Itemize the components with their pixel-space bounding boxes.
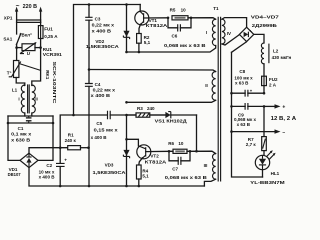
XP1 pin arrow left: [15, 7, 18, 22]
svg-text:430 мкГн: 430 мкГн: [272, 55, 292, 60]
svg-text:C4: C4: [95, 82, 101, 87]
fuse FU2: [262, 76, 267, 93]
svg-text:IV: IV: [227, 31, 231, 36]
wire feedback to winding II: [89, 70, 216, 72]
svg-text:"Вкл": "Вкл": [19, 33, 32, 38]
svg-text:T1: T1: [213, 6, 219, 11]
svg-text:0,068 мк х 63 В: 0,068 мк х 63 В: [164, 43, 206, 48]
label R6 10: [168, 141, 184, 146]
switch SA1: [16, 34, 20, 48]
label R2: [144, 35, 151, 45]
svg-text:КТ812А: КТ812А: [146, 23, 168, 28]
label VT1: [146, 18, 168, 28]
svg-text:х 400 В: х 400 В: [39, 175, 56, 180]
svg-text:R5: R5: [170, 7, 176, 12]
svg-text:1,5КЕ350СА: 1,5КЕ350СА: [93, 170, 127, 175]
capacitor C5: [108, 111, 166, 120]
bridge VD1: [20, 153, 38, 167]
svg-text:–: –: [282, 130, 285, 136]
node C4 rail: [88, 185, 91, 188]
label C4: [91, 82, 116, 98]
svg-text:12 В, 2 А: 12 В, 2 А: [271, 116, 297, 122]
wire bridge minus diagonal: [232, 42, 247, 52]
resistor R1: [68, 146, 89, 150]
inductor L1 winding 2: [32, 85, 36, 113]
svg-text:10: 10: [178, 141, 184, 146]
capacitor C4: [85, 70, 93, 148]
node R1 right: [87, 146, 90, 149]
inductor L2: [261, 43, 269, 64]
label C3: [92, 17, 115, 34]
svg-text:0,22 мк х: 0,22 мк х: [93, 87, 116, 92]
label R7: [246, 137, 257, 147]
svg-text:II: II: [205, 83, 208, 88]
svg-text:RK1: RK1: [45, 70, 50, 80]
node startup mid: [125, 114, 128, 117]
node VT2 collector tap: [125, 138, 128, 141]
svg-text:220 В: 220 В: [23, 4, 37, 10]
LED HL1: [255, 150, 275, 177]
svg-text:FU2: FU2: [269, 77, 278, 82]
wire L1 to C1 block: [25, 113, 32, 116]
label R5: [170, 7, 187, 12]
svg-text:х 63 В: х 63 В: [237, 122, 251, 127]
label R3 240: [137, 106, 155, 111]
node VS1 join: [195, 150, 198, 153]
capacitor C8: [232, 89, 265, 97]
label VD2: [86, 39, 120, 49]
label R4: [142, 168, 149, 178]
node C1 left: [7, 122, 10, 125]
label VD3: [93, 162, 127, 174]
svg-text:0,25 А: 0,25 А: [44, 34, 58, 39]
svg-text:х 630 В: х 630 В: [11, 137, 31, 142]
wire secondary minus column: [232, 52, 263, 177]
svg-text:х 400 В: х 400 В: [92, 29, 112, 34]
capacitor C2: [56, 148, 67, 186]
T1 winding I: [212, 19, 215, 45]
wire VD1 plus output: [29, 148, 68, 154]
svg-text:DB107: DB107: [8, 172, 21, 177]
node R5 right: [190, 17, 193, 20]
node emitter line left: [125, 51, 128, 54]
node R4 rail: [138, 185, 141, 188]
svg-text:FU1: FU1: [44, 27, 53, 32]
node R5 left: [167, 17, 170, 20]
transformer T1 core: [218, 17, 220, 182]
svg-text:III: III: [204, 163, 208, 168]
resistor R6: [169, 149, 216, 153]
label C2: [39, 163, 56, 180]
T1 winding II: [212, 72, 216, 101]
output plus arrow: [264, 104, 285, 110]
wire left mains: [16, 22, 18, 34]
label VT2: [145, 153, 167, 164]
capacitor C9: [232, 103, 265, 110]
wire VT2 collector: [127, 139, 139, 146]
node R2 bottom: [138, 51, 141, 54]
wire winding III to rail: [204, 179, 215, 186]
svg-text:C3: C3: [95, 17, 101, 22]
svg-text:VD3: VD3: [105, 162, 114, 167]
label C8: [234, 69, 253, 86]
wire thermistor to L1: [16, 78, 25, 86]
node R6 left: [168, 150, 171, 153]
svg-text:L1: L1: [12, 88, 18, 93]
node C2 top: [59, 146, 62, 149]
svg-text:х 400 В: х 400 В: [91, 93, 111, 98]
label RU1: [43, 47, 63, 57]
label C7: [165, 166, 208, 180]
node startup line left: [72, 114, 75, 117]
svg-text:х 63 В: х 63 В: [235, 81, 249, 86]
node C8 right: [263, 92, 266, 95]
wire bridge plus to L2: [254, 34, 264, 43]
svg-text:C6: C6: [172, 33, 178, 38]
node VD3 rail: [125, 185, 128, 188]
fuse FU1: [38, 26, 43, 48]
wire winding IV bottom diagonal: [222, 35, 240, 45]
label C6: [164, 33, 206, 47]
wire VS1 to VT2 base line: [196, 115, 198, 151]
svg-text:XP1: XP1: [4, 15, 13, 20]
svg-text:C5: C5: [96, 121, 102, 126]
capacitor C6: [168, 18, 191, 32]
wire VD1 minus to rail: [29, 168, 204, 186]
label C1: [11, 126, 32, 143]
TVS diode VD3: [123, 115, 129, 186]
L1 phase dots: [24, 85, 33, 87]
node winding II return: [125, 101, 128, 104]
svg-text:1,5КЕ350СА: 1,5КЕ350СА: [86, 44, 120, 49]
svg-text:C2: C2: [46, 163, 52, 168]
XP1 pin arrow right: [39, 7, 42, 22]
node C8 left: [230, 92, 233, 95]
node VD2 top: [125, 3, 128, 6]
wire winding IV top to bridge: [222, 18, 247, 28]
svg-text:VT2: VT2: [150, 153, 159, 158]
bridge VD4-VD7: [239, 27, 253, 41]
svg-text:2 А: 2 А: [269, 83, 277, 88]
svg-text:240: 240: [147, 106, 155, 111]
varistor RU1: [17, 42, 41, 54]
label R1: [65, 132, 77, 143]
svg-text:HL1: HL1: [271, 171, 280, 176]
wire HV riser: [60, 115, 107, 148]
svg-text:SCK-103NTC: SCK-103NTC: [52, 62, 57, 104]
label L2: [272, 49, 292, 60]
wire collector riser: [74, 5, 141, 116]
label VD1: [8, 167, 21, 177]
svg-text:+: +: [282, 104, 285, 110]
svg-text:VD4–VD7: VD4–VD7: [251, 15, 280, 20]
svg-text:0,15 мк х: 0,15 мк х: [94, 128, 119, 133]
wire FU1 to L1: [32, 48, 41, 85]
svg-text:R6: R6: [168, 141, 174, 146]
wire left bus down: [8, 116, 20, 160]
label FU1: [44, 27, 58, 39]
svg-text:YL-BB3N7M: YL-BB3N7M: [250, 180, 285, 185]
wire C1 bottom bus: [8, 122, 53, 124]
svg-text:5,1: 5,1: [144, 40, 151, 45]
resistor R5: [172, 16, 216, 20]
svg-text:2Д2999Б: 2Д2999Б: [252, 23, 278, 28]
node SA1-RU1: [15, 46, 18, 49]
svg-text:+: +: [64, 157, 67, 162]
svg-text:II: II: [35, 96, 38, 101]
svg-text:VCR391: VCR391: [43, 52, 63, 57]
svg-text:5,1: 5,1: [142, 174, 149, 179]
TVS diode VD2: [123, 5, 129, 53]
svg-text:R1: R1: [68, 132, 74, 137]
svg-text:C8: C8: [239, 69, 245, 74]
svg-text:VS1 КН102Д: VS1 КН102Д: [155, 119, 188, 124]
thermistor RK1: [9, 61, 21, 78]
svg-text:R3: R3: [137, 106, 143, 111]
wire right mains: [40, 22, 42, 26]
resistor R2: [137, 34, 142, 53]
pointer RK1: [19, 64, 41, 71]
svg-text:0,068 мк х 63 В: 0,068 мк х 63 В: [165, 175, 208, 180]
resistor R4: [137, 165, 142, 186]
svg-text:L2: L2: [273, 49, 279, 54]
svg-text:C7: C7: [172, 166, 178, 171]
dinistor VS1: [165, 112, 196, 119]
capacitor C3: [85, 5, 92, 70]
svg-text:Т°: Т°: [7, 71, 12, 76]
svg-text:х 400 В: х 400 В: [91, 135, 108, 140]
wire emitter line to winding I: [127, 46, 216, 53]
transistor VT2: [137, 145, 169, 165]
svg-text:0,1 мк х: 0,1 мк х: [11, 131, 32, 136]
wire right bus down: [38, 116, 53, 160]
inductor L1 winding 1: [21, 85, 25, 113]
resistor R3: [127, 113, 166, 117]
label FU2: [269, 77, 278, 87]
node C9 left: [230, 105, 233, 108]
label C9: [234, 113, 256, 127]
T1 winding III: [213, 154, 216, 180]
wire C4 to rail: [88, 148, 90, 186]
svg-text:0,22 мк х: 0,22 мк х: [92, 23, 115, 28]
svg-text:2,7 к: 2,7 к: [246, 142, 257, 147]
svg-text:10: 10: [181, 7, 187, 12]
T1 winding IV: [222, 19, 225, 44]
label ~220V: [16, 3, 37, 10]
node C2 bottom: [59, 185, 62, 188]
capacitor C1: [26, 116, 32, 123]
node FU1-RU1: [39, 46, 42, 49]
node C3 top: [88, 3, 91, 6]
capacitor C7: [169, 151, 190, 165]
wire switch to thermistor: [16, 48, 18, 61]
svg-text:SA1: SA1: [3, 36, 12, 41]
svg-text:КТ812А: КТ812А: [145, 159, 167, 164]
resistor R7: [262, 106, 267, 155]
wire winding II to VD2 line: [127, 100, 216, 102]
L1 core: [28, 84, 30, 113]
svg-text:240 к: 240 к: [65, 138, 77, 143]
label C5: [91, 121, 119, 140]
wire L2 to FU2: [263, 64, 265, 76]
node minus column: [230, 130, 233, 133]
node C9 right: [263, 105, 266, 108]
label VD4-VD7: [251, 15, 280, 28]
XP1 connector double line: [17, 20, 41, 22]
node C1 right: [52, 122, 55, 125]
wire C1 top bus: [8, 115, 53, 117]
svg-text:I: I: [206, 30, 207, 35]
output minus arrow: [232, 129, 286, 135]
node feedback line: [88, 68, 91, 71]
transistor VT1: [135, 5, 168, 34]
svg-text:C1: C1: [18, 126, 24, 131]
node R6 right: [189, 150, 192, 153]
svg-text:I: I: [18, 96, 19, 101]
